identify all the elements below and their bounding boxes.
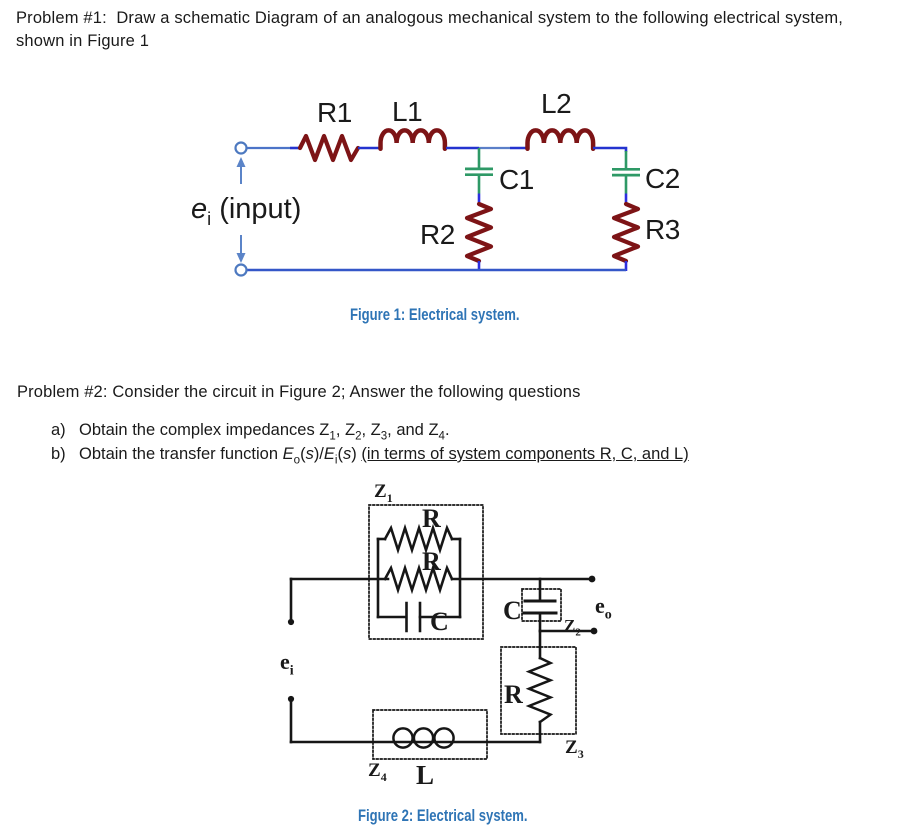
resistor R2: [467, 204, 491, 261]
wire: R to bottom rail: [539, 722, 542, 742]
resistor R1: [300, 136, 358, 160]
node dot right end of top rail: [589, 576, 596, 583]
Z2 dotted box: [522, 589, 561, 621]
wire: R3 to bottom rail: [625, 261, 628, 271]
wire: L2 to top-right corner: [593, 148, 626, 152]
arrow down (input bottom): [240, 235, 242, 254]
Figure 2 circuit SVG: [0, 420, 917, 825]
inductor L coil loop 3: [434, 728, 453, 747]
inductor L coil loop 2: [414, 728, 433, 747]
label Z4: [368, 760, 387, 785]
Z1 right connector: [459, 539, 462, 617]
arrow up (input top): [240, 166, 242, 184]
terminal top circle: [236, 143, 247, 154]
wire: L1 to node A: [446, 147, 479, 150]
wire: top rail right segment: [452, 578, 592, 581]
node dot output: [591, 628, 598, 635]
terminal dot upper left: [288, 619, 294, 625]
label C1: [499, 164, 534, 196]
capacitor C (in Z1) left lead: [378, 616, 406, 619]
wire: R2 to bottom rail: [478, 261, 481, 270]
inductor L coil loop 1: [393, 728, 412, 747]
Z3 dotted box: [501, 647, 576, 734]
Figure 1 circuit SVG: [0, 0, 917, 400]
resistor R (top, parallel): [385, 528, 452, 550]
wire: top-left terminal to R1: [247, 147, 290, 149]
resistor R (middle, on rail): [385, 568, 452, 590]
resistor R (top, parallel) lead left: [378, 538, 385, 541]
terminal bottom circle: [236, 265, 247, 276]
label C (Z2): [503, 596, 522, 626]
Problem #2 heading text: [17, 383, 581, 402]
wire: bottom rail: [291, 741, 540, 744]
capacitor C1 plates: [465, 169, 493, 175]
label Z3: [565, 737, 584, 762]
Z1 dotted box: [369, 505, 483, 639]
resistor R (top) lead right: [452, 538, 460, 541]
list item b: [51, 445, 66, 464]
label R1: [317, 97, 352, 129]
capacitor C2 top lead: [625, 151, 628, 168]
Z1 left connector: [377, 539, 380, 617]
wire: bottom rail: [247, 269, 626, 271]
capacitor C2 plates: [612, 169, 640, 175]
Figure 1 caption: [350, 305, 520, 325]
label R top (Z1): [422, 504, 441, 534]
label C2: [645, 163, 680, 195]
wire: left vertical upper: [290, 579, 293, 622]
wire: C1 to R2: [478, 194, 481, 205]
label L (Z4): [416, 760, 434, 791]
label ei: [280, 649, 294, 679]
wire: R1 to L1: [358, 147, 380, 150]
wire: node A to L2: [479, 147, 510, 149]
capacitor C (Z2) bottom lead: [539, 613, 542, 631]
Z4 dotted box: [373, 710, 487, 759]
capacitor C (Z2) plates: [524, 601, 556, 613]
wire: into R1: [290, 147, 300, 150]
label Z1: [374, 481, 393, 506]
resistor R (Z3): [529, 658, 551, 722]
label ei (input): [191, 193, 301, 230]
label L2: [541, 88, 571, 120]
capacitor C1 bottom lead: [478, 176, 481, 194]
wire: C2 to R3: [625, 194, 628, 205]
label Z2: [564, 616, 581, 638]
capacitor C2 bottom lead: [625, 176, 628, 193]
label L1: [392, 96, 422, 128]
label R middle (Z1): [422, 547, 441, 577]
label R3: [645, 214, 680, 246]
capacitor C1 top lead: [478, 148, 481, 168]
wire: output tap: [540, 630, 592, 633]
capacitor C (in Z1) plates: [407, 603, 421, 631]
label C (Z1): [430, 607, 449, 637]
label R2: [420, 219, 455, 251]
inductor L2: [528, 130, 594, 148]
inductor L1: [381, 130, 445, 148]
Figure 2 caption: [358, 806, 528, 825]
wire: left vertical lower: [290, 699, 293, 742]
terminal dot lower left: [288, 696, 294, 702]
resistor R3: [614, 204, 638, 261]
list item a: [51, 421, 66, 440]
wire: C to R: [539, 631, 542, 658]
label eo: [595, 593, 612, 623]
capacitor C (Z2) top lead: [539, 579, 542, 601]
capacitor C (in Z1) right lead: [420, 616, 460, 619]
wire: top rail left segment: [291, 578, 388, 581]
label R (Z3): [504, 680, 523, 710]
Problem #1 heading text: [16, 9, 843, 28]
